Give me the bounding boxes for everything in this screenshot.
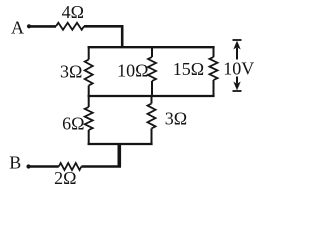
resistor 4ohm xyxy=(56,23,84,30)
wire 2ohm to riser xyxy=(81,165,121,168)
wire 4ohm to corner xyxy=(84,25,123,28)
svg-text:10V: 10V xyxy=(223,59,254,79)
resistor 10ohm xyxy=(148,57,156,81)
svg-text:4Ω: 4Ω xyxy=(62,2,84,22)
wire drop from A branch to top rail xyxy=(121,25,124,47)
resistor 3ohm (upper left) xyxy=(85,60,93,86)
svg-text:3Ω: 3Ω xyxy=(60,62,82,82)
wire riser from B branch to bottom rail xyxy=(118,144,122,167)
wire 6ohm upper lead xyxy=(88,95,90,107)
voltage arrow bottom bar xyxy=(233,90,242,92)
resistor 15ohm xyxy=(210,57,218,80)
wire A to resistor 4ohm xyxy=(30,25,56,28)
wire 3ohm lower lead to bottom rail xyxy=(151,129,153,146)
svg-text:A: A xyxy=(11,18,24,38)
wire middle column lead to middle rail xyxy=(151,81,153,96)
wire right column lower lead xyxy=(213,80,215,97)
wire 3ohm lower upper lead xyxy=(151,95,153,104)
voltage arrow top bar xyxy=(233,39,242,41)
terminal dot B xyxy=(26,164,30,168)
resistor 2ohm xyxy=(59,163,82,170)
svg-text:6Ω: 6Ω xyxy=(62,114,84,134)
wire bottom rail xyxy=(88,143,153,145)
wire right column upper lead xyxy=(213,46,215,57)
wire top rail xyxy=(88,46,215,48)
svg-text:3Ω: 3Ω xyxy=(165,108,187,128)
wire 6ohm lower lead xyxy=(88,130,90,145)
wire middle column upper lead xyxy=(151,46,153,57)
wire B to resistor 2ohm xyxy=(30,165,59,168)
terminal dot A xyxy=(27,24,31,28)
wire left column upper lead xyxy=(88,46,90,59)
voltage arrow lower shaft with arrowhead xyxy=(236,77,238,84)
resistor 3ohm (lower) xyxy=(148,104,156,129)
voltage arrow upper shaft with arrowhead xyxy=(236,48,238,60)
wire middle rail xyxy=(88,95,215,97)
wire left column lower lead to middle rail xyxy=(88,86,90,97)
svg-text:B: B xyxy=(9,153,21,173)
svg-text:2Ω: 2Ω xyxy=(54,168,76,188)
svg-text:15Ω: 15Ω xyxy=(173,59,204,79)
resistor 6ohm xyxy=(85,107,93,130)
svg-text:10Ω: 10Ω xyxy=(117,61,148,81)
